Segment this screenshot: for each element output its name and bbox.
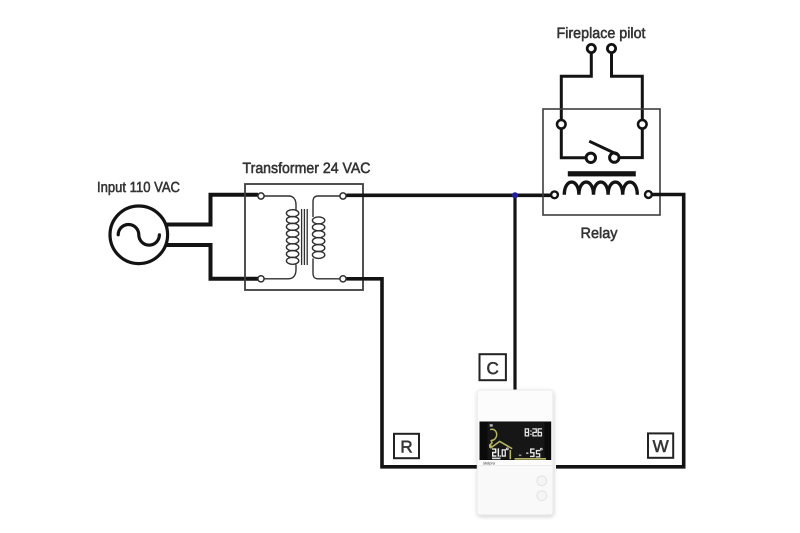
thermostat body: [477, 390, 553, 515]
thermostat button down: [537, 491, 547, 501]
relay coil: [564, 182, 637, 195]
relay coil terminal left: [551, 191, 558, 198]
svg-text:R: R: [400, 438, 412, 457]
fireplace pilot terminal right: [607, 44, 615, 52]
LCD house icon: [490, 441, 512, 459]
wire AC lower to transformer primary bottom: [160, 245, 258, 279]
LCD weather icon (crescent + squiggle): [490, 429, 497, 448]
thermostat button up: [537, 476, 547, 486]
wire relay switch right branch: [620, 129, 643, 158]
relay coil terminal right: [645, 191, 652, 198]
svg-text:Transformer 24 VAC: Transformer 24 VAC: [243, 160, 371, 177]
relay switch terminal left: [557, 120, 566, 129]
label box C: [480, 354, 506, 380]
wire pilot left to relay switch terminal left: [561, 53, 591, 120]
relay switch terminal right: [638, 120, 647, 129]
fireplace pilot terminal left: [587, 44, 595, 52]
relay armature bar: [568, 171, 636, 176]
svg-text:W: W: [653, 437, 669, 456]
wire relay switch left branch: [561, 129, 585, 158]
wire transformer secondary top to relay coil: [347, 194, 552, 198]
transformer terminal secondary bottom: [340, 276, 346, 282]
transformer core: [302, 209, 308, 265]
LCD setpoint underline: [492, 458, 501, 460]
wire AC upper to transformer primary top: [160, 195, 258, 225]
label box R: [394, 434, 419, 458]
label box W: [648, 433, 673, 457]
AC source (Input 110 VAC): [110, 206, 168, 264]
svg-text:C: C: [487, 359, 499, 378]
transformer terminal primary bottom: [258, 276, 264, 282]
transformer primary winding: [264, 196, 299, 279]
relay switch contact right: [610, 153, 619, 162]
transformer terminal secondary top: [340, 193, 346, 199]
wire transformer secondary bottom to thermostat R terminal: [347, 279, 479, 467]
LCD tiny status icon: [490, 424, 493, 426]
LCD bottom bar: [515, 458, 546, 460]
svg-text:Relay: Relay: [581, 225, 618, 242]
transformer terminal primary top: [258, 193, 264, 199]
svg-text:Input 110 VAC: Input 110 VAC: [97, 180, 180, 196]
relay switch contact left: [586, 153, 595, 162]
LCD room temp 21.0 (7-seg): [492, 448, 508, 457]
relay switch blade: [589, 141, 617, 154]
svg-text:stelpro: stelpro: [483, 461, 496, 466]
thermostat LCD screen: [480, 422, 552, 461]
node C junction (blue dot): [512, 192, 518, 198]
transformer secondary winding: [312, 196, 340, 279]
transformer T1 box: [245, 184, 363, 290]
LCD time 8:26 (7-seg): [525, 428, 543, 436]
svg-text:Fireplace pilot: Fireplace pilot: [557, 25, 647, 42]
wire relay coil right to thermostat W terminal: [556, 195, 684, 467]
relay box: [543, 109, 660, 215]
wire C branch down to thermostat: [513, 195, 516, 390]
wire pilot right to relay switch terminal right: [612, 53, 643, 120]
LCD outdoor temp -5.5 (7-seg): [519, 448, 542, 457]
